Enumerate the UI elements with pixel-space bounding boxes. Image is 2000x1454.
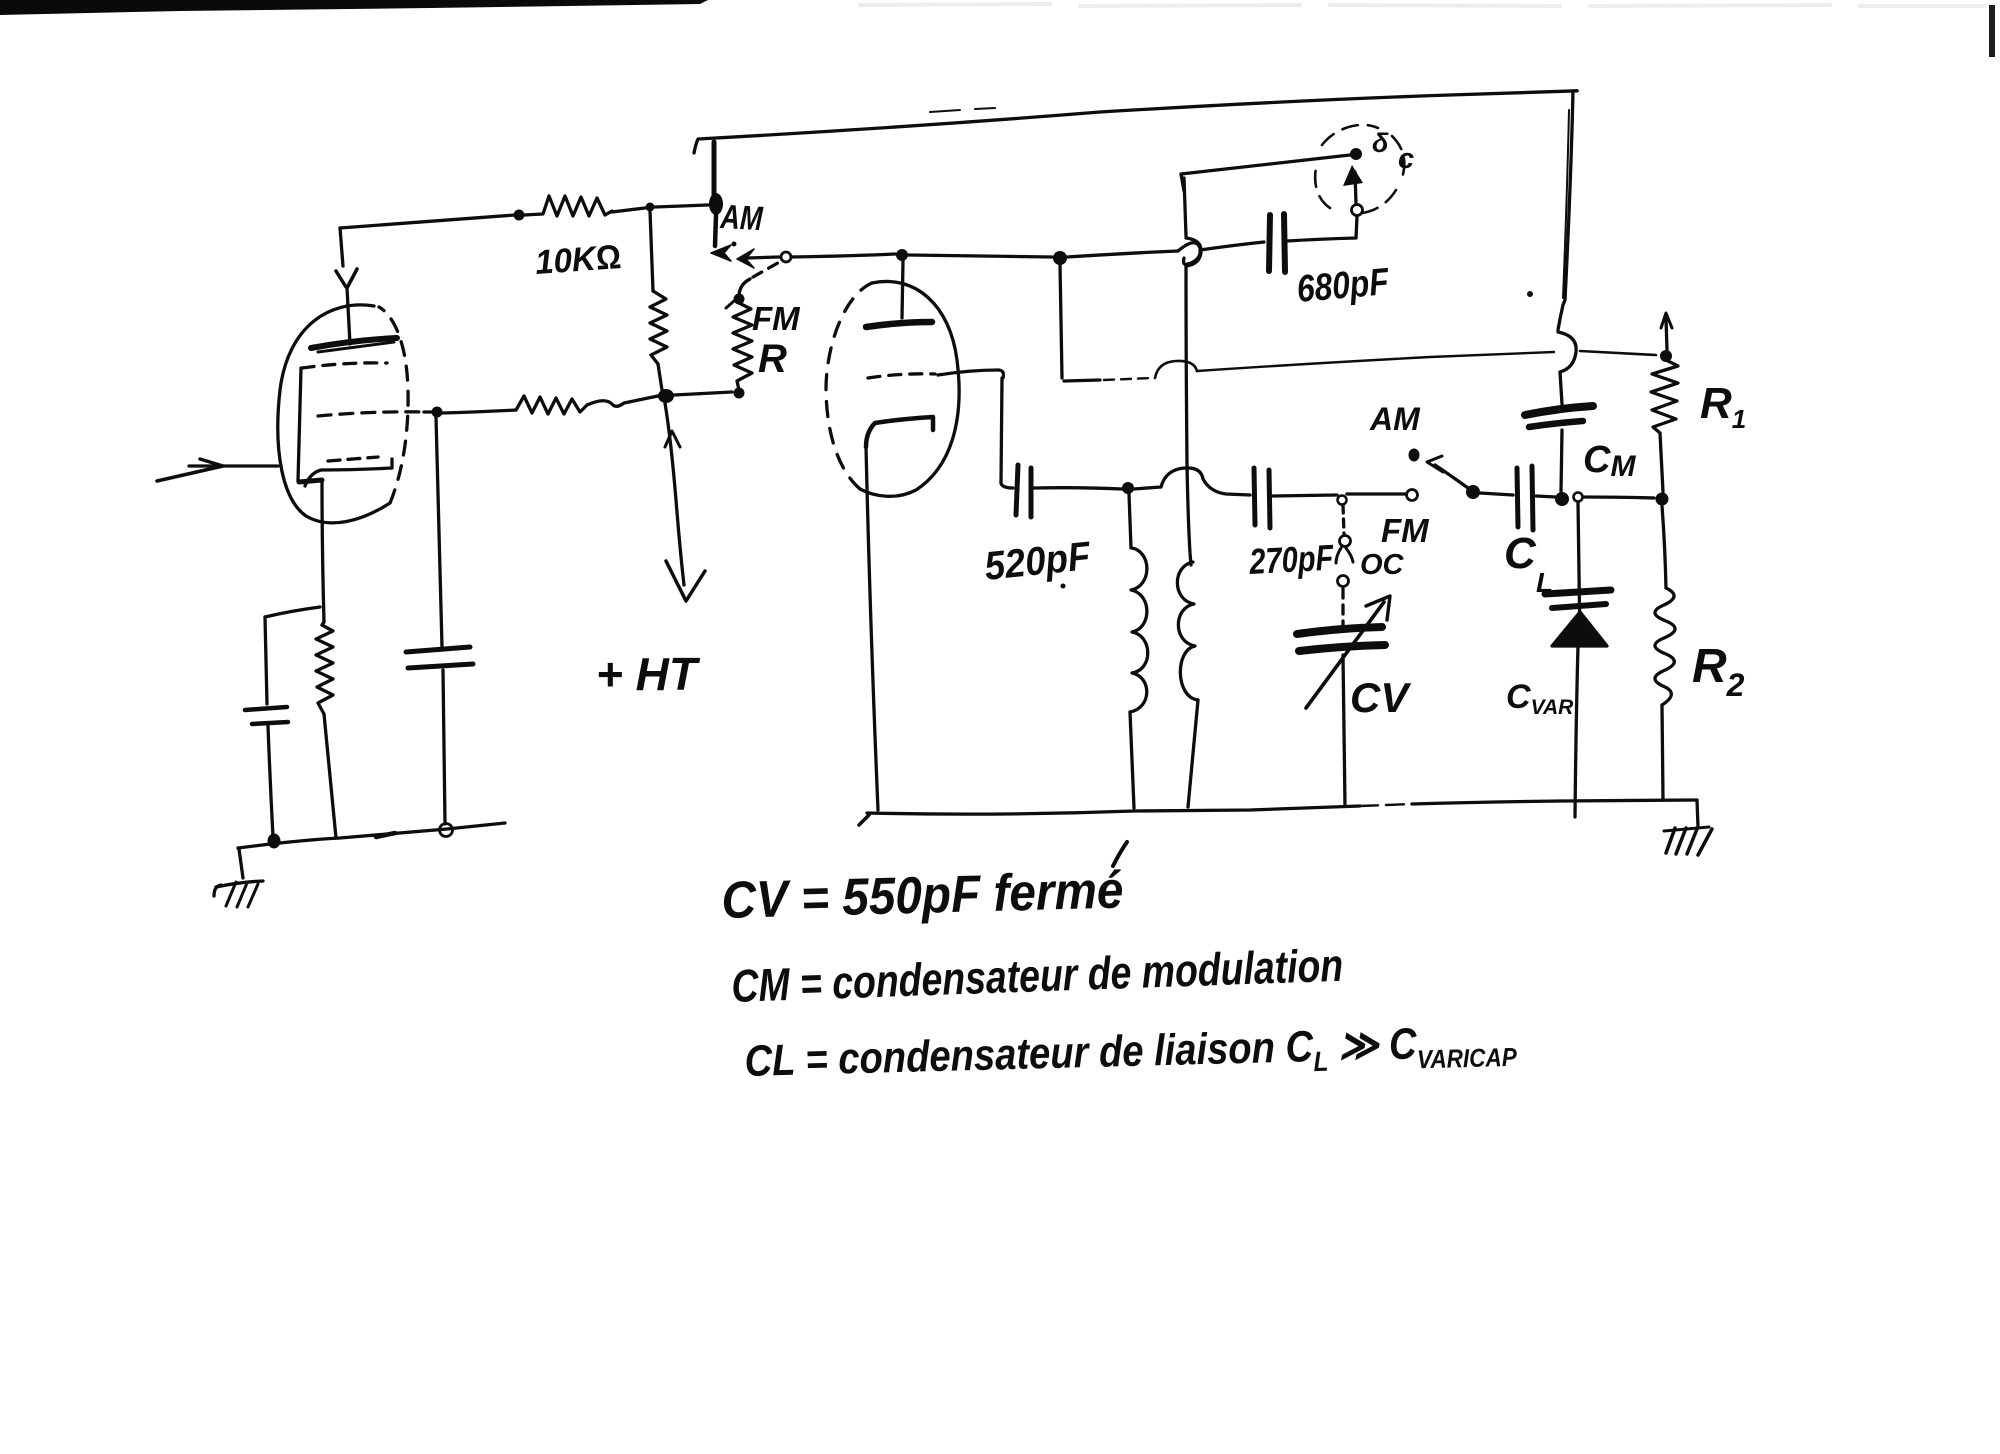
- wire: node x1060 vertical down to R1 bus corner: [1060, 264, 1062, 378]
- wire: node AM down to switch contact: [715, 215, 716, 246]
- capacitor 270pF right plate: [1269, 470, 1270, 528]
- wire: coil2 bottom lead: [1188, 700, 1198, 807]
- scan artifact: right edge mark: [1989, 5, 1995, 57]
- ground symbol right (hatch): [1664, 827, 1709, 831]
- wire: CL right lead: [1536, 496, 1556, 497]
- resistor cathode (vertical zigzag): [322, 622, 324, 625]
- stray ink dot A: [1527, 291, 1533, 297]
- wire: solid tail of mid grid to node: [424, 410, 433, 413]
- wire: long top bus from node AM up-right to top-right corner: [694, 91, 1577, 153]
- svg-text:520pF: 520pF: [982, 534, 1093, 589]
- wire: ground stub: [239, 849, 243, 878]
- tube1 plate bar: [311, 338, 397, 348]
- wire: T to FM contact: [1347, 492, 1405, 495]
- wire: node to AM junction: [655, 205, 708, 207]
- wire: grid-node vertical lead down to big cap: [436, 417, 442, 647]
- OC dashed circle: [1315, 125, 1404, 213]
- wire: R1 bottom lead to node: [1660, 433, 1663, 492]
- capacitor 520pF right plate: [1029, 468, 1034, 517]
- tube2 grid lead from bus: [902, 261, 903, 318]
- wire: grid node to horizontal resistor: [442, 410, 516, 413]
- capacitor 520pF left plate: [1016, 465, 1018, 515]
- svg-text:R2: R2: [1692, 640, 1745, 703]
- wire hop: right vertical hops over R1 wire: [1558, 332, 1576, 404]
- node: ground bus dot left: [268, 834, 281, 849]
- node: open circle on ground bus: [440, 824, 453, 837]
- tube2 grid bar thick: [866, 322, 932, 327]
- +HT arrow line down: [665, 403, 684, 585]
- wire: 270pF right lead to T contact: [1272, 495, 1337, 496]
- capacitor CL left plate: [1517, 468, 1518, 527]
- svg-text:AM: AM: [1369, 401, 1421, 437]
- AM contact dot (mid): [1409, 449, 1420, 462]
- wire: bus right corner down stub: [1697, 800, 1698, 827]
- variable capacitor CV bottom plate: [1299, 645, 1385, 651]
- wire: R top hook: [739, 279, 750, 295]
- wire hop: 520pF wire hops over vertical x1187 toward 270pF: [1134, 468, 1250, 495]
- capacitor left-bottom bottom plate: [252, 722, 288, 724]
- svg-text:L: L: [1536, 567, 1553, 598]
- node: junction dot CL/CM/CVAR: [1555, 492, 1569, 506]
- wire: chevron to open contact: [747, 257, 779, 258]
- accent stroke of ferme: [1113, 842, 1127, 866]
- tube1 mid grid dashed line: [318, 412, 425, 416]
- resistor horizontal lower zigzag: [516, 396, 587, 414]
- wire: junction to R1R2 node: [1584, 497, 1654, 498]
- wire: grid bus continues to hop at x1187: [1067, 251, 1178, 257]
- wire: faint dashes above top bus: [930, 108, 995, 112]
- wire: tube1 plate lead down with arrowhead: [340, 228, 343, 266]
- wire: grid bus continues to node at x1060: [908, 255, 1052, 257]
- wire: coil1 bottom lead: [1130, 712, 1134, 808]
- capacitor CM bottom plate: [1529, 421, 1583, 427]
- svg-text:FM: FM: [752, 300, 801, 337]
- svg-text:680pF: 680pF: [1295, 261, 1392, 311]
- tube2 cathode lead down to bottom bus: [866, 447, 878, 810]
- R1 top stub with arrowhead: [1666, 318, 1667, 350]
- OC switch arrow shaft: [1355, 172, 1356, 204]
- wire: CVAR lead from open circle: [1578, 502, 1580, 645]
- bottom bus right section: [867, 806, 1360, 814]
- +HT big arrowhead: [666, 561, 705, 601]
- ground bus left: [238, 823, 505, 848]
- switch arrow chevron 2: [737, 249, 754, 268]
- node: R bottom dot: [734, 388, 745, 399]
- node: dot at coil1 top junction: [1122, 482, 1134, 494]
- svg-text:CVAR: CVAR: [1506, 678, 1574, 719]
- tube2 plate dashed line: [868, 374, 935, 378]
- svg-text:R1: R1: [1700, 379, 1746, 434]
- tube2 cathode hook thick: [866, 417, 933, 447]
- capacitor left-bottom top plate: [245, 707, 287, 710]
- tube2 envelope (solid right arc): [860, 281, 959, 496]
- scan artifact: faint gray band top right: [860, 4, 1985, 6]
- svg-text:FM: FM: [1381, 512, 1430, 549]
- wire: left cap upper lead: [265, 617, 267, 704]
- switch arrow chevron 1 (left contact): [711, 245, 731, 261]
- +HT small up chevron: [665, 431, 680, 447]
- wire: grid bus y~255 from contact to node at tube2: [791, 254, 895, 257]
- OC2 upper open circle: [1340, 536, 1351, 547]
- wire: long vertical x1187 from OC stub through hops down to coil2: [1184, 178, 1186, 236]
- open contact circle after chevrons: [781, 252, 791, 262]
- wire: right vertical from top corner down to CM: [1558, 91, 1573, 330]
- svg-text:OC: OC: [1360, 549, 1405, 581]
- node: tube1 grid node dot: [432, 407, 443, 418]
- wire: plate corner vertical down: [1001, 378, 1002, 483]
- wire: CV bottom lead to bus: [1343, 655, 1345, 806]
- CV arrow diagonal: [1306, 602, 1384, 708]
- wire: 10K to small node: [612, 208, 645, 212]
- OC switch lower open contact: [1352, 205, 1363, 216]
- tube2 envelope (dashed left arc): [826, 283, 872, 489]
- svg-text:CV: CV: [1350, 674, 1411, 721]
- tube1 cathode lead down: [322, 481, 324, 622]
- tube1 grid box: bottom corner thick: [299, 480, 322, 482]
- inductor L2 (3 scallops bulging left): [1177, 562, 1198, 700]
- resistor R (vertical zigzag): [733, 303, 752, 390]
- capacitor C (big, bottom plate): [408, 664, 473, 668]
- input arrow into tube1: [189, 464, 278, 467]
- OC2 dashed lead lower: [1341, 589, 1344, 629]
- wire: lever pivot to CL: [1480, 493, 1513, 495]
- capacitor 680pF right plate: [1284, 214, 1285, 272]
- wire: coil1 top lead: [1129, 494, 1131, 548]
- svg-text:+ HT: + HT: [596, 648, 701, 700]
- wire: squiggle-loop tail into +HT node: [587, 396, 658, 406]
- wire: left resistor bottom to node: [658, 364, 662, 390]
- wire: R1 top bus (faint) from hop to node: [1064, 380, 1100, 381]
- svg-text:R: R: [758, 337, 787, 381]
- resistor vertical left zigzag: [650, 291, 667, 364]
- OC switch upper contact dot: [1350, 148, 1362, 160]
- wire: 680pF right lead to OC lower contact: [1287, 216, 1357, 241]
- scan artifact: top black bar: [0, 0, 708, 15]
- resistor R1 zigzag: [1651, 360, 1678, 433]
- tube1 envelope (solid left arc): [278, 305, 390, 523]
- capacitor CL right plate: [1532, 466, 1533, 530]
- wire: R1 bus long run to R1 node: [1197, 352, 1554, 371]
- wire: CM bottom lead down to junction: [1561, 430, 1562, 492]
- inductor L1 (4 scallops bulging right): [1130, 548, 1148, 712]
- wire: left cap lower lead to ground bus: [268, 726, 273, 837]
- node: small open circle under wire at T: [1338, 496, 1347, 505]
- FM open contact circle: [1407, 490, 1418, 501]
- wire: R2 top lead: [1662, 506, 1666, 588]
- wire: grid bus from hop to 680pF left plate: [1200, 242, 1264, 250]
- tube1 grid box: dashed top line: [302, 363, 387, 368]
- small tick on ground bus: [376, 833, 395, 837]
- OC2 rotor legs: [1336, 548, 1353, 563]
- node: R1/R2 junction dot: [1656, 493, 1669, 506]
- OC2 lower open circle: [1338, 576, 1349, 587]
- node: dot left of 10K resistor: [514, 210, 525, 221]
- resistor vertical left (x~655) lead: [650, 211, 653, 291]
- wire: cathode branch diagonal to left cap: [265, 607, 320, 617]
- switch lever arm: [1435, 465, 1468, 488]
- wire: +HT node to R bottom: [674, 392, 732, 395]
- wire hop: grid bus corner loop over vertical x1187: [1178, 243, 1200, 265]
- CV arrowhead: [1366, 596, 1390, 620]
- wire: CVAR lower lead to bus: [1575, 646, 1578, 817]
- svg-text:CV = 550pF fermé: CV = 550pF fermé: [721, 861, 1124, 930]
- resistor 10K ohm (horizontal zigzag): [524, 196, 612, 216]
- resistor R2 loopy zigzag: [1655, 588, 1675, 705]
- node: open circle right of junction: [1574, 493, 1583, 502]
- wire: stub from vertical to OC contact: [1181, 155, 1350, 191]
- wire hop: R1 bus over vertical x1187: [1155, 361, 1197, 378]
- tube1 cathode bar with hook: [305, 459, 392, 486]
- varicap CVAR bottom plate: [1552, 604, 1606, 608]
- wire: corner to 520pF left plate: [1001, 483, 1013, 488]
- tube1 envelope (dashed right arc): [379, 307, 408, 503]
- tube2 plate wire solid to corner: [938, 370, 1003, 378]
- wire: big cap lower lead to ground bus: [443, 670, 445, 824]
- ground symbol left (TM hatch): [216, 881, 263, 887]
- svg-text:C: C: [1504, 529, 1537, 578]
- svg-text:AM: AM: [719, 198, 764, 238]
- svg-text:CM = condensateur de modulatio: CM = condensateur de modulation: [731, 939, 1344, 1012]
- node: small dot at resistor net top: [646, 203, 655, 212]
- svg-text:270pF: 270pF: [1247, 537, 1335, 582]
- switch lever AM/FM: pivot dot: [1466, 485, 1480, 499]
- node: AM junction blob: [709, 193, 723, 215]
- tube1 lower dashed line: [328, 457, 378, 461]
- wire: cathode resistor bottom to ground bus: [324, 714, 336, 838]
- switch lever arrowhead: [1427, 456, 1443, 472]
- svg-text:c: c: [1398, 143, 1414, 175]
- capacitor CM top plate: [1525, 406, 1593, 415]
- capacitor 680pF left plate: [1269, 215, 1270, 271]
- OC switch arrowhead (filled): [1343, 165, 1363, 186]
- OC2 column: dashed lead: [1343, 505, 1344, 534]
- varicap CVAR top plate: [1545, 590, 1611, 594]
- svg-text:CL = condensateur de liaison C: CL = condensateur de liaison CL ≫ CVARIC…: [744, 1017, 1518, 1092]
- capacitor C (big, top plate): [406, 647, 470, 652]
- variable capacitor CV top plate: [1297, 627, 1382, 634]
- wire: tube1 plate wire to 10K resistor: [340, 215, 515, 228]
- wire: 520pF to coil1 junction: [1034, 488, 1122, 489]
- svg-text:10KΩ: 10KΩ: [534, 238, 622, 282]
- capacitor 270pF left plate: [1254, 468, 1255, 525]
- node: R top dot: [734, 294, 745, 305]
- svg-text:CM: CM: [1583, 439, 1636, 483]
- varicap CVAR triangle (filled): [1552, 612, 1607, 646]
- tick at bus left end: [859, 815, 869, 825]
- node: R1 top dot: [1660, 350, 1672, 362]
- svg-text:δ: δ: [1372, 128, 1389, 158]
- node: tube2 grid junction dot: [896, 249, 908, 261]
- dashed lever from R top to FM contact: [753, 260, 783, 277]
- stray ink dot B: [1061, 584, 1066, 589]
- tube1 grid box: left vertical: [298, 368, 301, 481]
- wire: vertical from top bus down to node AM: [712, 142, 717, 196]
- wire: R2 bottom lead to bus: [1662, 705, 1663, 799]
- node: big junction dot (+HT node): [658, 389, 674, 403]
- node: junction dot x1060: [1053, 251, 1067, 265]
